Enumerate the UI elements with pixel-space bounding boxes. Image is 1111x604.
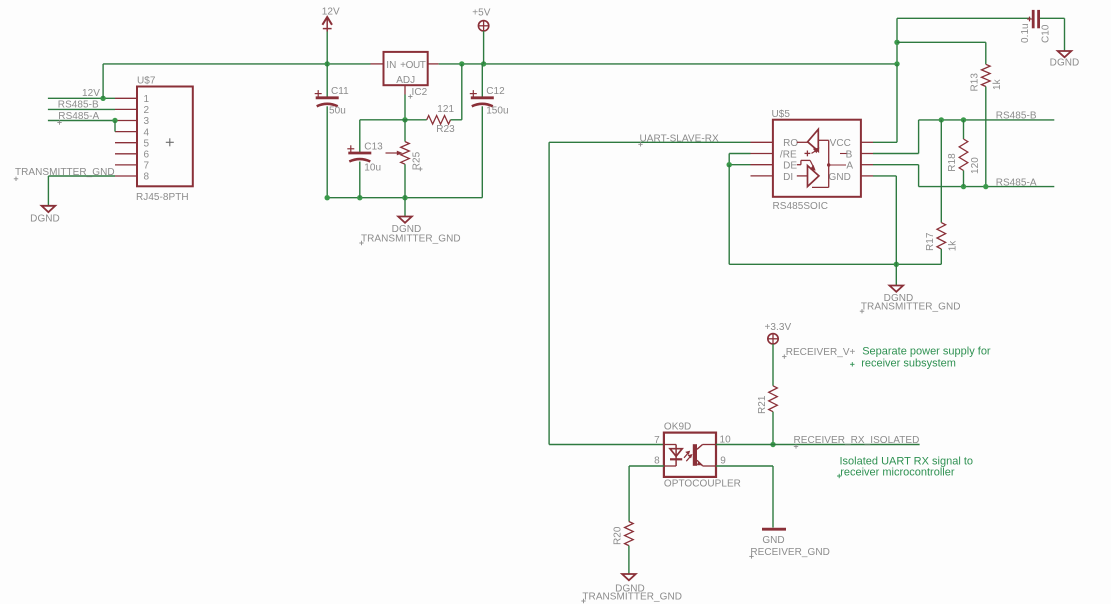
svg-text:RO: RO	[783, 138, 798, 149]
svg-text:IN: IN	[386, 60, 396, 71]
svg-text:DGND: DGND	[30, 214, 60, 225]
svg-text:7: 7	[144, 161, 150, 172]
svg-text:150u: 150u	[486, 106, 508, 117]
svg-text:IC2: IC2	[412, 87, 428, 98]
svg-text:receiver microcontroller: receiver microcontroller	[840, 466, 955, 478]
svg-text:8: 8	[654, 455, 660, 466]
svg-text:50u: 50u	[329, 106, 346, 117]
svg-text:C10: C10	[1041, 24, 1052, 43]
svg-text:1k: 1k	[947, 240, 958, 252]
svg-text:Separate power supply for: Separate power supply for	[862, 346, 991, 358]
svg-text:TRANSMITTER_GND: TRANSMITTER_GND	[861, 302, 961, 313]
svg-text:+3.3V: +3.3V	[765, 322, 792, 333]
svg-text:R18: R18	[947, 153, 958, 172]
svg-text:121: 121	[437, 104, 454, 115]
svg-text:4: 4	[144, 127, 150, 138]
svg-text:/RE: /RE	[780, 149, 797, 160]
svg-text:B: B	[846, 149, 853, 160]
svg-text:C11: C11	[331, 86, 349, 97]
svg-text:12V: 12V	[322, 6, 340, 17]
svg-text:1k: 1k	[992, 78, 1003, 90]
svg-text:R17: R17	[925, 232, 936, 251]
svg-text:RS485-A: RS485-A	[58, 111, 99, 122]
svg-text:C13: C13	[364, 142, 383, 153]
svg-text:U$5: U$5	[772, 109, 791, 120]
svg-text:12V: 12V	[82, 88, 100, 99]
svg-text:RS485SOIC: RS485SOIC	[773, 201, 828, 212]
svg-text:+5V: +5V	[472, 8, 491, 19]
svg-text:2: 2	[144, 105, 150, 116]
svg-text:OK9D: OK9D	[664, 422, 691, 433]
svg-text:120: 120	[970, 157, 981, 174]
svg-text:RS485-A: RS485-A	[996, 177, 1037, 188]
svg-text:+OUT: +OUT	[400, 60, 426, 71]
svg-text:R20: R20	[613, 526, 624, 545]
svg-text:RS485-B: RS485-B	[996, 111, 1037, 122]
svg-text:10: 10	[720, 434, 732, 445]
svg-text:receiver subsystem: receiver subsystem	[861, 357, 956, 369]
svg-text:6: 6	[144, 150, 150, 161]
svg-text:9: 9	[720, 455, 726, 466]
svg-text:R21: R21	[757, 395, 768, 414]
svg-text:R13: R13	[970, 73, 981, 92]
svg-text:C12: C12	[486, 86, 505, 97]
svg-text:A: A	[846, 161, 853, 172]
svg-text:R23: R23	[436, 124, 455, 135]
svg-text:TRANSMITTER_GND: TRANSMITTER_GND	[582, 591, 682, 602]
svg-text:1: 1	[144, 94, 150, 105]
svg-text:RS485-B: RS485-B	[58, 100, 99, 111]
svg-text:RECEIVER_RX_ISOLATED: RECEIVER_RX_ISOLATED	[794, 435, 920, 446]
svg-text:RECEIVER_V+: RECEIVER_V+	[786, 347, 856, 358]
svg-text:0.1u: 0.1u	[1020, 23, 1031, 43]
svg-text:TRANSMITTER_GND: TRANSMITTER_GND	[15, 167, 115, 178]
svg-text:TRANSMITTER_GND: TRANSMITTER_GND	[361, 233, 461, 244]
svg-text:UART-SLAVE-RX: UART-SLAVE-RX	[640, 133, 719, 144]
svg-text:RJ45-8PTH: RJ45-8PTH	[136, 192, 189, 203]
svg-text:GND: GND	[829, 172, 851, 183]
svg-text:7: 7	[654, 435, 660, 446]
svg-text:VCC: VCC	[830, 138, 851, 149]
svg-text:5: 5	[144, 138, 150, 149]
svg-text:DGND: DGND	[1050, 58, 1080, 69]
svg-text:RECEIVER_GND: RECEIVER_GND	[750, 547, 830, 558]
svg-text:DI: DI	[783, 172, 793, 183]
svg-text:3: 3	[144, 116, 150, 127]
svg-text:8: 8	[144, 172, 150, 183]
svg-text:DE: DE	[783, 161, 797, 172]
svg-text:U$7: U$7	[137, 76, 156, 87]
svg-text:GND: GND	[762, 535, 784, 546]
svg-text:10u: 10u	[364, 163, 381, 174]
svg-text:OPTOCOUPLER: OPTOCOUPLER	[664, 479, 741, 490]
svg-text:ADJ: ADJ	[396, 75, 415, 86]
